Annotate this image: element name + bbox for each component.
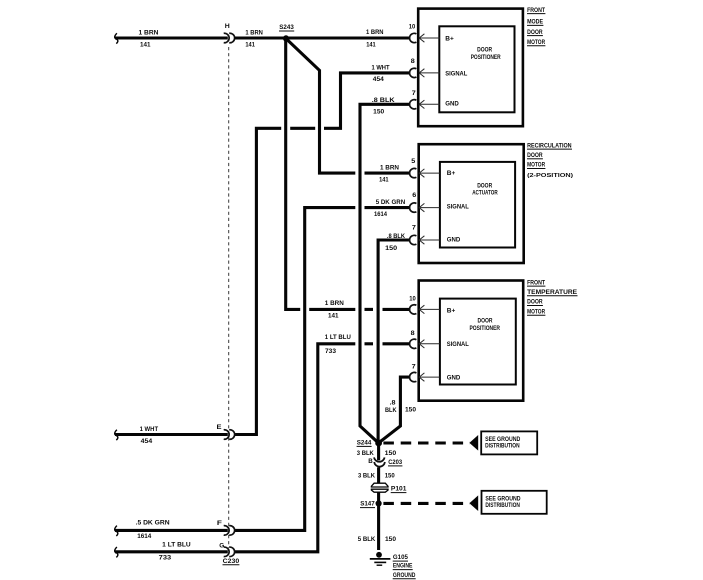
wire: 1 BRN 141 from S243 to pin 10: [286, 36, 410, 39]
svg-text:733: 733: [159, 555, 172, 562]
svg-text:8: 8: [411, 58, 415, 65]
pin 7 connector (GND): [410, 100, 440, 109]
underline DOOR: [527, 35, 543, 37]
svg-text:3 BLK: 3 BLK: [358, 473, 375, 480]
svg-text:3 BLK: 3 BLK: [357, 450, 374, 457]
underline FRONT (box3): [527, 285, 545, 287]
svg-text:7: 7: [412, 364, 416, 371]
reference box SEE GROUND DISTRIBUTION (lower): [482, 491, 547, 514]
svg-text:POSITIONER: POSITIONER: [471, 54, 501, 61]
wire continuation hook (left end of BRN wire): [115, 33, 118, 43]
svg-text:FRONT: FRONT: [527, 7, 545, 14]
svg-text:150: 150: [385, 245, 397, 252]
connector C203 (in-line, vertical): [374, 457, 385, 466]
svg-text:1 WHT: 1 WHT: [140, 426, 159, 433]
svg-text:141: 141: [379, 177, 389, 184]
wire: 5 DK GRN 1614 from connector F up to pin 6: [235, 208, 356, 531]
underline S147: [360, 507, 375, 509]
splice S147: [376, 500, 382, 506]
wire: 1 BRN 141 left segment: [115, 36, 228, 39]
pin 8 connector (SIGNAL): [410, 68, 440, 77]
svg-text:1 LT BLU: 1 LT BLU: [162, 541, 191, 548]
wire segment F row left of connector: [115, 529, 228, 532]
pin 5 connector (B+): [410, 168, 440, 177]
svg-text:5 BLK: 5 BLK: [358, 536, 376, 543]
svg-text:6: 6: [412, 192, 416, 199]
svg-text:.5 DK GRN: .5 DK GRN: [136, 519, 170, 526]
wire segment E row left of connector: [115, 433, 228, 436]
wire segment after crossover: [365, 172, 411, 175]
svg-text:B: B: [368, 458, 373, 465]
underline P101: [391, 492, 407, 494]
svg-text:141: 141: [328, 312, 339, 319]
wire P101 to S147: [377, 492, 380, 502]
svg-text:RECIRCULATION: RECIRCULATION: [527, 142, 572, 149]
svg-text:S244: S244: [357, 440, 372, 447]
wire: 1 BRN 141 between H and S243: [235, 36, 286, 39]
svg-text:DOOR: DOOR: [527, 29, 543, 36]
svg-text:10: 10: [409, 24, 416, 31]
wire continuation hook (left end of DK GRN wire): [115, 526, 118, 536]
svg-text:G: G: [219, 542, 224, 549]
svg-text:454: 454: [141, 438, 153, 445]
svg-text:1 BRN: 1 BRN: [139, 29, 159, 36]
module inner box (door actuator): [440, 162, 515, 248]
off-page arrow (upper see ground distribution): [469, 435, 478, 451]
svg-text:DOOR: DOOR: [477, 47, 492, 54]
svg-text:POSITIONER: POSITIONER: [470, 325, 501, 332]
underline DOOR (box3): [527, 305, 543, 307]
wire segment between crossovers: [290, 127, 315, 130]
svg-text:S147: S147: [360, 501, 375, 508]
svg-text:FRONT: FRONT: [527, 279, 545, 286]
wire segment to left corner then down to E row: [235, 128, 282, 434]
wire: 1 LT BLU 733 from connector G up to pin 8: [235, 344, 356, 552]
svg-text:C230: C230: [223, 558, 240, 565]
svg-text:141: 141: [140, 41, 151, 48]
pin 7 connector (GND box3): [410, 372, 440, 381]
svg-text:1614: 1614: [374, 211, 387, 218]
svg-text:5 DK GRN: 5 DK GRN: [376, 199, 406, 206]
svg-text:DOOR: DOOR: [527, 299, 543, 306]
svg-text:GND: GND: [445, 101, 459, 108]
svg-text:DOOR: DOOR: [527, 152, 543, 159]
wire segment to pin 10: [383, 308, 411, 311]
underline S243: [279, 30, 294, 32]
svg-text:1 BRN: 1 BRN: [245, 29, 263, 36]
connector terminal F: [224, 526, 235, 536]
svg-text:GROUND: GROUND: [393, 572, 416, 579]
underline G105: [393, 560, 408, 562]
underline RECIRCULATION: [527, 148, 572, 150]
svg-text:ENGINE: ENGINE: [393, 563, 413, 570]
svg-text:733: 733: [325, 348, 336, 355]
svg-text:150: 150: [385, 450, 397, 457]
wire continuation hook (left end of LT BLU wire): [115, 547, 118, 557]
wire segment after crossover: [365, 206, 411, 209]
module outer box (front temperature door motor): [419, 281, 524, 401]
pin 6 connector (SIGNAL): [410, 203, 440, 212]
svg-text:P101: P101: [391, 486, 407, 493]
underline MODE: [527, 24, 543, 26]
underline MOTOR: [527, 45, 545, 47]
svg-text:BLK: BLK: [385, 407, 397, 414]
svg-text:G105: G105: [393, 554, 408, 561]
svg-text:MOTOR: MOTOR: [527, 162, 545, 169]
wire: .8 BLK 150 from pin 7 down to S244: [380, 377, 410, 442]
module outer box (recirculation door motor): [419, 144, 524, 263]
dashed wire S147 to ground distribution: [383, 502, 470, 505]
module inner box (door positioner): [439, 26, 514, 112]
underline S244: [357, 445, 372, 447]
svg-text:S243: S243: [279, 24, 294, 31]
svg-text:141: 141: [366, 41, 376, 48]
svg-text:1 LT BLU: 1 LT BLU: [325, 334, 351, 341]
splice S243: [283, 35, 289, 41]
svg-text:1 BRN: 1 BRN: [380, 165, 399, 172]
svg-text:GND: GND: [447, 237, 461, 244]
svg-text:141: 141: [245, 41, 255, 48]
svg-text:MODE: MODE: [527, 19, 544, 26]
connector terminal H: [224, 33, 235, 43]
svg-text:H: H: [225, 23, 230, 30]
underline FRONT: [527, 13, 545, 15]
underline MOTOR (box3): [527, 314, 545, 316]
wire segment to pin 8: [383, 342, 411, 345]
svg-text:B+: B+: [445, 35, 454, 42]
svg-text:SIGNAL: SIGNAL: [447, 204, 469, 211]
svg-text:MOTOR: MOTOR: [527, 308, 545, 315]
dashed wire S244 to ground distribution: [383, 441, 470, 444]
wire S147 to G105: [377, 505, 380, 550]
svg-text:DOOR: DOOR: [477, 182, 492, 189]
svg-text:1614: 1614: [137, 533, 151, 540]
svg-text:150: 150: [405, 407, 416, 414]
svg-text:DOOR: DOOR: [478, 318, 493, 325]
svg-text:TEMPERATURE: TEMPERATURE: [527, 289, 578, 296]
wire segment between crossovers: [365, 342, 374, 345]
svg-text:7: 7: [412, 90, 416, 97]
svg-text:1 BRN: 1 BRN: [325, 300, 344, 307]
pin 8 connector (SIGNAL box3): [410, 339, 440, 348]
pin 10 connector (B+): [410, 33, 440, 42]
svg-text:B+: B+: [447, 170, 456, 177]
svg-text:.8: .8: [390, 400, 396, 407]
reference box SEE GROUND DISTRIBUTION (upper): [481, 431, 537, 454]
splice S244: [375, 440, 382, 447]
svg-text:ACTUATOR: ACTUATOR: [472, 190, 498, 197]
underline ENGINE: [393, 569, 413, 571]
svg-text:1 WHT: 1 WHT: [372, 64, 390, 71]
svg-text:GND: GND: [447, 375, 461, 382]
svg-text:150: 150: [385, 536, 396, 543]
svg-text:SIGNAL: SIGNAL: [447, 341, 469, 348]
wire: .8 BLK 150 from pin 7 down to S244: [360, 104, 410, 442]
svg-text:DISTRIBUTION: DISTRIBUTION: [485, 502, 520, 509]
underline C203: [388, 465, 402, 467]
svg-text:F: F: [217, 520, 222, 527]
wire: 1 BRN 141 from S243 down then right to pin 10: [286, 38, 301, 309]
pin 10 connector (B+ box3): [410, 305, 440, 314]
svg-text:.8 BLK: .8 BLK: [372, 97, 395, 104]
svg-text:B+: B+: [447, 307, 456, 314]
underline MOTOR (box2): [527, 168, 545, 170]
wire segment G row left of connector: [115, 550, 228, 553]
svg-text:.8 BLK: .8 BLK: [387, 233, 406, 240]
wire: 1 WHT 454 from pin 8 down-left to connector E: [324, 73, 410, 128]
svg-text:(2-POSITION): (2-POSITION): [527, 173, 573, 179]
underline DOOR (box2): [527, 158, 543, 160]
connector terminal G: [224, 547, 235, 557]
underline C230: [223, 564, 240, 566]
wire: 1 BRN 141 diagonal from S243 then down to pin 5: [288, 40, 356, 173]
wire segment between crossovers: [365, 308, 374, 311]
svg-text:7: 7: [412, 225, 416, 232]
grommet P101: [371, 483, 388, 492]
svg-text:E: E: [217, 424, 223, 431]
underline TEMPERATURE: [527, 295, 578, 297]
module inner box (door positioner box3): [440, 299, 516, 385]
wire S244 to C203: [377, 444, 380, 460]
off-page arrow (lower see ground distribution): [469, 495, 478, 511]
svg-text:454: 454: [373, 76, 384, 83]
connector terminal E: [224, 430, 235, 440]
wire: .8 BLK 150 from pin 7 down to S244: [378, 240, 410, 442]
svg-text:C203: C203: [388, 459, 402, 466]
pin 7 connector (GND box2): [410, 235, 440, 244]
wire C203 to P101: [377, 467, 380, 484]
svg-text:1 BRN: 1 BRN: [366, 29, 384, 36]
module outer box (front mode door motor): [418, 9, 523, 127]
underline GROUND: [393, 578, 416, 580]
svg-text:10: 10: [409, 296, 416, 303]
svg-text:150: 150: [385, 473, 395, 480]
svg-text:SIGNAL: SIGNAL: [445, 71, 467, 78]
svg-text:150: 150: [373, 109, 384, 116]
svg-text:MOTOR: MOTOR: [527, 39, 545, 46]
svg-text:DISTRIBUTION: DISTRIBUTION: [485, 443, 520, 450]
wire continuation hook (left end of WHT wire): [115, 430, 118, 440]
svg-text:8: 8: [411, 330, 415, 337]
ground G105 symbol: [370, 552, 391, 565]
wire segment between crossovers: [309, 308, 355, 311]
svg-text:5: 5: [411, 158, 415, 165]
